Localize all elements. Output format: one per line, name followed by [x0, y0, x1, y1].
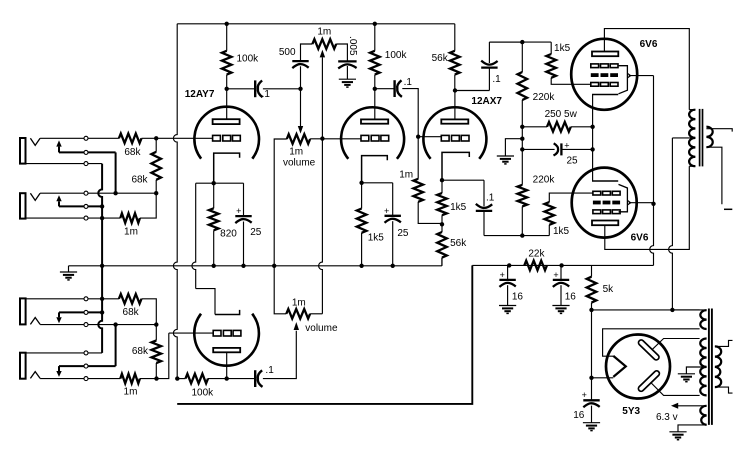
resistor 56k b — [437, 232, 447, 258]
resistor 1m tone pot — [312, 39, 336, 49]
OT core — [700, 109, 703, 166]
grid boxes 12AY7b — [213, 330, 241, 336]
cathode 6V6b — [592, 180, 618, 182]
wire HV tap ground — [678, 367, 707, 382]
plate bar 12AX7a — [361, 119, 388, 123]
svg-text:1m: 1m — [292, 298, 306, 309]
svg-text:5Y3: 5Y3 — [622, 406, 640, 417]
cathode 12AY7b — [215, 310, 240, 315]
wire 500 top — [301, 44, 313, 61]
grid row3 6V6b — [593, 210, 620, 214]
resistor 1m volume1 — [287, 134, 310, 144]
resistor 1k5 a — [357, 209, 367, 233]
wire 5Y3 plate top — [652, 339, 700, 350]
capacitor .1 second — [395, 80, 402, 97]
volume2 wiper arrow — [294, 322, 299, 330]
resistor 820 — [209, 208, 219, 230]
wire nodeA left — [489, 41, 522, 43]
label 820 — [220, 229, 237, 240]
wire speaker minus — [706, 147, 722, 204]
wire heater ground — [669, 425, 706, 440]
label 6V6 upper — [640, 39, 658, 50]
label 1k5 d — [553, 226, 570, 237]
wire mains top — [715, 340, 733, 346]
label + 25a — [384, 206, 389, 216]
svg-text:68k: 68k — [124, 147, 141, 158]
wire cathode node a — [362, 182, 393, 184]
wire 6V6b plate — [605, 166, 690, 249]
label 68k low — [123, 307, 140, 318]
label 1m grid — [399, 170, 413, 181]
resistor 1k5 b — [437, 193, 447, 215]
switch arrow J3 — [56, 312, 61, 323]
svg-text:1k5: 1k5 — [450, 202, 467, 213]
wire tip4 to grid — [140, 333, 169, 379]
svg-text:100k: 100k — [191, 387, 214, 398]
label 1k5 b — [450, 202, 467, 213]
svg-text:.1: .1 — [262, 89, 271, 100]
svg-text:1m: 1m — [289, 147, 303, 158]
label 16 b — [565, 291, 577, 302]
svg-text:68k: 68k — [132, 346, 149, 357]
label 16 a — [512, 291, 524, 302]
svg-text:1m: 1m — [317, 26, 331, 37]
resistor 68k low vert — [152, 341, 162, 364]
wire bus to 56k — [441, 258, 443, 266]
tube 12AY7 envelope — [194, 107, 259, 159]
resistor 1m volume2 — [286, 309, 310, 319]
resistor 220k lower — [518, 185, 528, 207]
capacitor 16 third — [583, 378, 600, 431]
diode bar bottom 5Y3 — [637, 370, 660, 393]
svg-text:500: 500 — [279, 47, 296, 58]
wire plateb node — [455, 90, 490, 92]
jack J3 — [20, 298, 40, 324]
OT secondary winding — [706, 127, 712, 148]
wire 250 leads — [522, 126, 592, 128]
grid row1 6V6a — [591, 64, 618, 68]
wire nodeA — [489, 41, 551, 43]
grid row2 6V6a — [591, 73, 618, 77]
wire speaker plus — [706, 129, 732, 132]
wire ground stub — [497, 139, 523, 164]
label 68k vert — [131, 175, 148, 186]
label volume2 — [305, 323, 338, 334]
label 100k second — [385, 50, 408, 61]
svg-text:.1: .1 — [265, 365, 274, 376]
capacitor 25 bypass a — [385, 183, 401, 266]
wire 100k low leads — [177, 378, 254, 380]
wire 56k1 leads — [454, 24, 456, 91]
tube 12AX7b envelope — [423, 107, 486, 159]
resistor 250 5w — [547, 122, 571, 132]
svg-text:68k: 68k — [131, 175, 148, 186]
tube 6V6b envelope — [572, 168, 637, 238]
screen notch 6V6a — [627, 73, 630, 78]
svg-text:1m: 1m — [124, 387, 138, 398]
label 25 PI — [566, 155, 578, 166]
cathode 12AX7b — [442, 152, 469, 180]
grid row3 6V6a — [591, 83, 618, 87]
wire 1k5a leads — [361, 183, 363, 266]
svg-text:1m: 1m — [399, 170, 413, 181]
svg-text:22k: 22k — [528, 249, 545, 260]
ground .005 — [339, 79, 356, 87]
wire vol1 to grid — [310, 138, 361, 140]
svg-text:56k: 56k — [450, 238, 467, 249]
PT rectifier winding — [700, 310, 706, 329]
wire 68klv leads — [155, 325, 157, 379]
wire tip3 drop — [115, 325, 117, 367]
wire plate lead low — [226, 352, 228, 378]
tone wiper arrow — [320, 50, 325, 139]
svg-text:250 5w: 250 5w — [545, 109, 578, 120]
tube 5Y3 envelope — [606, 335, 670, 399]
wire plate node — [227, 88, 255, 90]
wire tone right — [336, 44, 347, 61]
wire J4 tip — [40, 378, 120, 380]
wire cathode box top — [196, 182, 244, 184]
wire vol1 left — [274, 139, 287, 266]
wire B+ rail — [472, 264, 653, 266]
wire cap low out — [263, 331, 296, 379]
jack J2 — [20, 193, 40, 218]
wire 6V6 cathode line — [592, 95, 594, 182]
resistor 56k top — [450, 51, 460, 75]
capacitor .1 PI lower — [476, 180, 492, 235]
label 100k low — [191, 387, 214, 398]
wire J3 ring — [59, 311, 102, 313]
svg-text:820: 820 — [220, 229, 237, 240]
wire 1k5d leads — [549, 193, 593, 236]
wire volume wiper — [300, 89, 302, 126]
wire B down — [591, 310, 593, 378]
svg-text:5k: 5k — [603, 284, 615, 295]
wire 6V6a plate — [604, 29, 689, 110]
beam bracket 6V6a — [619, 66, 628, 94]
wire mains bottom — [715, 387, 733, 393]
wire ring1 drop — [115, 152, 117, 193]
label + 25cap — [236, 206, 241, 216]
wire jack ground chain — [98, 164, 102, 353]
svg-text:220k: 220k — [533, 174, 556, 185]
svg-text:1k5: 1k5 — [554, 43, 571, 54]
wire cathode node b — [442, 179, 484, 181]
resistor 1k5 6V6b — [545, 202, 555, 225]
label .005 rotated — [347, 36, 358, 56]
resistor 5k — [587, 277, 597, 303]
wire 68k low out — [142, 299, 157, 325]
cathode 12AY7 — [214, 153, 240, 183]
wire 100k top lead — [226, 24, 228, 51]
cathode 12AX7a — [362, 156, 388, 183]
resistor 1k5 6V6a — [546, 54, 556, 78]
wire grid2 entry — [418, 136, 441, 138]
wire plate lead a — [374, 89, 376, 120]
screen notch 6V6b — [627, 200, 630, 205]
label 68k — [124, 147, 141, 158]
svg-text:6V6: 6V6 — [631, 233, 649, 244]
wire vol2 left — [274, 266, 286, 314]
wire HV top lead — [672, 309, 706, 311]
label 220k upper — [533, 92, 556, 103]
wire ground bus — [69, 265, 442, 267]
switch arrow J1 — [56, 140, 61, 152]
beam bracket 6V6b — [619, 184, 628, 211]
wire plate lead b — [454, 91, 456, 120]
label 25 — [250, 227, 262, 238]
label 250 5w — [545, 109, 578, 120]
filament arrow 5Y3 — [613, 356, 626, 377]
wire 1m to tip node — [140, 193, 156, 218]
plate bar 6V6b — [592, 221, 618, 226]
svg-text:68k: 68k — [123, 307, 140, 318]
switch arrow J4 — [56, 366, 61, 377]
label 22k — [528, 249, 545, 260]
wire shared cathode drop — [192, 183, 215, 314]
wire J2 ring — [59, 205, 102, 207]
speaker minus dash — [724, 208, 732, 210]
label 12AX7 — [471, 96, 502, 107]
label 100k — [237, 54, 260, 65]
wire 100k2 leads — [374, 24, 376, 89]
resistor 100k low — [186, 374, 209, 384]
capacitor 500 — [292, 61, 308, 68]
PT primary winding — [715, 346, 721, 387]
wire heater lead — [671, 403, 707, 409]
wire J4 top — [26, 352, 103, 354]
plate bar 12AY7b — [213, 348, 240, 352]
wire J1 tip — [40, 137, 119, 139]
tube 12AX7a envelope — [341, 107, 404, 159]
capacitor 25 (cathode) — [235, 183, 251, 266]
label 1m — [124, 226, 138, 237]
wire 68k-v leads — [155, 138, 157, 193]
jack J1 — [20, 138, 40, 164]
plate bar 12AX7b — [441, 119, 468, 123]
wire 5k leads — [591, 265, 593, 310]
svg-text:1m: 1m — [124, 226, 138, 237]
capacitor .1 low — [255, 370, 262, 387]
plate bar 6V6a — [592, 52, 618, 57]
tube 12AY7b envelope — [194, 314, 259, 366]
resistor 68k (J1 tip) — [119, 134, 142, 144]
capacitor 16 second — [552, 265, 569, 313]
wire 1k5b leads — [441, 180, 443, 224]
label volume1 — [283, 157, 316, 168]
PT core — [709, 309, 712, 425]
label .1 PI lower — [486, 193, 495, 204]
label 1m vol1 — [289, 147, 303, 158]
resistor 100k second — [370, 51, 380, 75]
grid boxes 12AX7a — [361, 135, 389, 141]
label 5Y3 — [622, 406, 640, 417]
wire 5Y3 plate bottom — [651, 382, 700, 395]
label + 16a — [500, 270, 505, 280]
wire 1m grid leads — [418, 137, 442, 224]
resistor 1m low — [120, 374, 140, 384]
wire B+ left edge — [173, 24, 177, 379]
wire grid3 entry — [169, 332, 213, 334]
svg-text:+: + — [582, 390, 587, 400]
resistor 1m (J2) — [120, 213, 140, 223]
svg-text:1k5: 1k5 — [368, 232, 385, 243]
grid boxes 12AX7b — [441, 135, 469, 141]
resistor 100k plate — [222, 51, 232, 75]
wire to cap2 — [375, 88, 395, 90]
svg-text:volume: volume — [283, 157, 316, 168]
label + 25PI — [564, 140, 569, 150]
label + 16c — [582, 390, 587, 400]
label 500 — [279, 47, 296, 58]
grid row2 6V6b — [593, 201, 620, 205]
resistor 1m grid — [413, 179, 423, 202]
label 5k — [603, 284, 615, 295]
capacitor .1 PI upper — [481, 42, 497, 90]
ground main — [60, 266, 77, 280]
capacitor .005 — [338, 61, 356, 68]
label + 16b — [553, 270, 558, 280]
grid row1 6V6b — [593, 191, 620, 195]
wire 56kb leads — [441, 224, 443, 265]
wire B+ bottom run — [177, 265, 472, 404]
resistor 220k upper — [518, 72, 528, 100]
svg-text:6V6: 6V6 — [640, 39, 658, 50]
svg-text:+: + — [564, 140, 569, 150]
label .1 PI upper — [492, 74, 501, 85]
label 220k lower — [533, 174, 556, 185]
label 6V6 lower — [631, 233, 649, 244]
label 68k low vert — [132, 346, 149, 357]
capacitor 25 PI — [522, 143, 592, 155]
svg-text:+: + — [553, 270, 558, 280]
svg-text:+: + — [384, 206, 389, 216]
resistor 22k — [524, 261, 547, 271]
OT center tap — [669, 138, 696, 310]
label 56k top — [432, 53, 449, 64]
grid boxes 12AY7 — [213, 135, 241, 141]
jack contact circles — [84, 136, 88, 380]
switch arrow J2 — [56, 195, 61, 206]
label .1 low — [265, 365, 274, 376]
svg-text:56k: 56k — [432, 53, 449, 64]
plate bar 12AY7 — [213, 119, 240, 124]
wire 1k5c leads — [551, 42, 591, 84]
wire screen bus — [629, 76, 654, 266]
svg-text:16: 16 — [512, 291, 524, 302]
svg-text:220k: 220k — [533, 92, 556, 103]
wire J1 sleeve — [26, 163, 102, 165]
svg-text:12AY7: 12AY7 — [185, 89, 215, 100]
volume1 wiper arrow — [298, 126, 303, 134]
OT primary winding — [689, 110, 695, 167]
label 1m vol2 — [292, 298, 306, 309]
svg-text:.1: .1 — [492, 74, 501, 85]
label .1 second — [404, 77, 413, 88]
svg-text:100k: 100k — [237, 54, 260, 65]
jack J4 — [20, 353, 40, 379]
svg-text:.005: .005 — [347, 36, 358, 56]
svg-text:25: 25 — [250, 227, 262, 238]
svg-text:16: 16 — [565, 291, 577, 302]
wire cap to tone node — [263, 88, 301, 90]
label 1k5 c — [554, 43, 571, 54]
svg-text:volume: volume — [305, 323, 338, 334]
label 1m tone — [317, 26, 331, 37]
capacitor .1 coupling — [255, 80, 262, 97]
svg-text:.1: .1 — [404, 77, 413, 88]
wire screen b — [629, 202, 654, 204]
resistor 68k low — [119, 294, 142, 304]
diode bar top 5Y3 — [637, 339, 660, 361]
capacitor 16 first — [499, 265, 516, 313]
svg-text:6.3 v: 6.3 v — [656, 412, 678, 423]
wire .005 stem — [346, 66, 348, 79]
wire 220k2 lead — [521, 206, 523, 235]
svg-text:.1: .1 — [486, 193, 495, 204]
wire J4 ring — [59, 365, 116, 367]
label .1 first — [262, 89, 271, 100]
wire mix drop — [310, 139, 322, 314]
wire J1 ring — [59, 151, 116, 153]
svg-text:1k5: 1k5 — [553, 226, 570, 237]
svg-text:100k: 100k — [385, 50, 408, 61]
cathode 6V6a — [592, 94, 618, 96]
wire 5Y3 filament bottom — [592, 377, 614, 379]
svg-text:25: 25 — [397, 228, 409, 239]
wire 68k to grid node — [142, 137, 213, 139]
wire J3 top — [26, 298, 119, 300]
svg-text:25: 25 — [566, 155, 578, 166]
label 25 a — [397, 228, 409, 239]
label 16 c — [573, 410, 585, 421]
wire 820 leads — [213, 183, 215, 266]
svg-text:12AX7: 12AX7 — [471, 96, 502, 107]
label 12AY7 — [185, 89, 215, 100]
svg-text:+: + — [500, 270, 505, 280]
label 56k b — [450, 238, 467, 249]
wire J3 tip — [40, 324, 156, 326]
wire B node — [592, 309, 700, 311]
wire cap2 out — [402, 89, 418, 137]
svg-text:+: + — [236, 206, 241, 216]
PT heater winding — [700, 406, 706, 425]
wire J2 sleeve — [26, 217, 121, 219]
wire divider mid — [521, 127, 523, 185]
label 1m low — [124, 387, 138, 398]
wire J2 tip — [40, 192, 156, 194]
label 1k5 a — [368, 232, 385, 243]
tube 6V6a envelope — [571, 39, 637, 110]
wire 220k1 leads — [521, 42, 523, 127]
resistor 68k vertical — [151, 152, 161, 180]
svg-text:16: 16 — [573, 410, 585, 421]
wire tone node up — [300, 66, 302, 89]
PT HV winding — [700, 339, 706, 396]
wire 5Y3 filament top — [603, 329, 700, 356]
label 6.3v — [656, 412, 678, 423]
wire nodeB — [484, 235, 549, 237]
wire 12AY7 plate lead — [226, 75, 228, 120]
wire B+ top bus — [177, 23, 455, 25]
